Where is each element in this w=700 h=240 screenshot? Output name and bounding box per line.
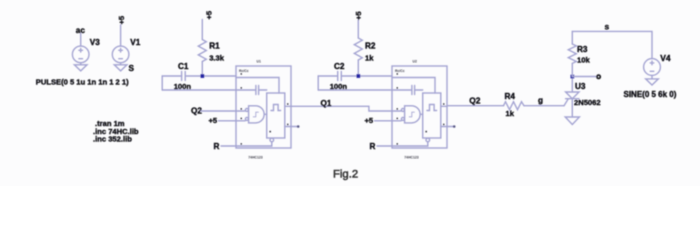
thyristor U3 2N5062 bbox=[564, 77, 579, 118]
svg-text:10k: 10k bbox=[577, 55, 590, 64]
svg-text:C1: C1 bbox=[178, 62, 189, 71]
svg-text:U2: U2 bbox=[413, 59, 417, 63]
spice directives bbox=[93, 119, 139, 144]
wire (R4 to U3 gate, net g) bbox=[524, 105, 564, 107]
wire (U1 Qbar stub) bbox=[291, 126, 298, 128]
svg-text:100n: 100n bbox=[174, 82, 192, 91]
voltage source V3 bbox=[72, 34, 89, 63]
wire (R3 top to V4, net s) bbox=[572, 31, 652, 58]
wire Q1 (U1 out to U2 in) bbox=[291, 106, 392, 111]
node o (port marker) bbox=[597, 75, 600, 78]
wire (Q2 to U1 pin A) bbox=[201, 110, 236, 112]
wire (node to port o) bbox=[572, 76, 596, 78]
ground (below V4) bbox=[646, 75, 659, 85]
wire (+5 to U2 pin B) bbox=[375, 120, 393, 122]
svg-text:+5: +5 bbox=[354, 11, 363, 20]
wire (U2 out, net Q2) bbox=[447, 105, 504, 107]
wire (U2 Qbar stub) bbox=[447, 126, 454, 128]
U1 pin annotations and type text bbox=[239, 59, 289, 159]
svg-text:Q2: Q2 bbox=[469, 95, 481, 105]
svg-text:V1: V1 bbox=[130, 38, 140, 47]
svg-text:SINE(0 5 6k 0): SINE(0 5 6k 0) bbox=[624, 90, 677, 99]
svg-text:V4: V4 bbox=[660, 53, 671, 63]
svg-text:R2: R2 bbox=[365, 42, 376, 51]
svg-text:+5: +5 bbox=[365, 116, 374, 125]
svg-text:R4: R4 bbox=[505, 92, 516, 101]
svg-text:.inc 352.lib: .inc 352.lib bbox=[93, 135, 132, 144]
U2 pin annotations and type text bbox=[395, 59, 445, 159]
svg-text:74HC123: 74HC123 bbox=[404, 155, 418, 159]
capacitor C2 100n bbox=[318, 72, 392, 91]
svg-text:Fig.2: Fig.2 bbox=[333, 169, 358, 181]
wire (R to U2 pin CLR) bbox=[377, 145, 392, 147]
svg-text:PULSE(0 5 1u 1n 1n 1 2 1): PULSE(0 5 1u 1n 1n 1 2 1) bbox=[36, 78, 129, 87]
svg-text:+5: +5 bbox=[117, 15, 126, 24]
svg-text:100n: 100n bbox=[330, 82, 348, 91]
svg-text:1k: 1k bbox=[506, 109, 515, 118]
op-amp U2 (74HC123 monostable, gate 2) bbox=[392, 66, 447, 148]
svg-text:Q1: Q1 bbox=[321, 99, 332, 108]
resistor R2 1k bbox=[354, 20, 362, 76]
svg-text:R: R bbox=[214, 142, 220, 151]
svg-text:+5: +5 bbox=[205, 10, 214, 19]
svg-text:g: g bbox=[538, 96, 543, 105]
svg-text:2N5062: 2N5062 bbox=[574, 98, 601, 107]
svg-text:Rc/Cc: Rc/Cc bbox=[239, 69, 249, 73]
svg-text:R3: R3 bbox=[577, 45, 588, 54]
svg-text:V3: V3 bbox=[90, 38, 100, 47]
svg-text:Rc/Cc: Rc/Cc bbox=[395, 69, 405, 73]
svg-text:1k: 1k bbox=[365, 53, 374, 62]
svg-text:C2: C2 bbox=[334, 62, 345, 71]
svg-text:+5: +5 bbox=[209, 116, 218, 125]
op-amp U1 (74HC123 monostable, gate 1) bbox=[236, 66, 291, 148]
ground (below V3) bbox=[74, 63, 87, 71]
wire (R to U1 pin CLR) bbox=[221, 145, 236, 147]
capacitor C1 100n bbox=[162, 72, 236, 91]
resistor R3 10k bbox=[568, 31, 576, 76]
svg-text:S: S bbox=[129, 64, 135, 73]
svg-text:74HC123: 74HC123 bbox=[248, 155, 262, 159]
resistor R1 3.3k bbox=[198, 20, 206, 77]
svg-text:ac: ac bbox=[76, 26, 86, 35]
junction (R2/C2 node) bbox=[357, 74, 361, 78]
svg-text:U3: U3 bbox=[575, 82, 586, 91]
ground (below V1) bbox=[114, 63, 127, 71]
ground (below U3) bbox=[565, 117, 579, 125]
junction (R1/C1 node) bbox=[201, 74, 205, 78]
wire (+5 to U1 pin B) bbox=[219, 120, 237, 122]
voltage source V4 bbox=[644, 59, 661, 76]
svg-text:R: R bbox=[370, 142, 376, 151]
voltage source V1 bbox=[112, 25, 129, 63]
resistor R4 1k bbox=[504, 102, 525, 110]
svg-text:U1: U1 bbox=[257, 59, 261, 63]
svg-text:3.3k: 3.3k bbox=[209, 53, 225, 62]
svg-text:R1: R1 bbox=[209, 42, 220, 51]
svg-text:s: s bbox=[605, 21, 610, 31]
junction (R3/U3 node) bbox=[571, 75, 575, 79]
